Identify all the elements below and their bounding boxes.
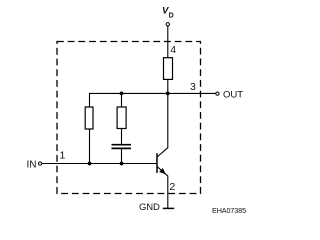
transistor Q1 collector diagonal [157, 148, 168, 157]
transistor Q1 base bar [156, 153, 158, 173]
wire R2 top to resistor [121, 93, 123, 107]
svg-text:IN: IN [27, 160, 37, 171]
node junction dot (R2 top) [120, 92, 124, 96]
ground symbol [163, 207, 174, 209]
node junction dot (C1 bottom on IN rail) [120, 162, 124, 166]
wire VD terminal to resistor 4 [167, 26, 169, 58]
node junction dot (R1 bottom on IN rail) [88, 162, 92, 166]
resistor R2 (series with capacitor) [117, 107, 126, 129]
wire resistor 4 bottom to output node [167, 79, 169, 93]
resistor (pull-up, pin 4) [164, 58, 173, 80]
transistor Q1 emitter diagonal [157, 167, 168, 177]
capacitor C1 [112, 145, 132, 149]
wire collector vertical to output node [167, 93, 169, 148]
svg-text:3: 3 [190, 81, 196, 93]
resistor R1 (left input resistor) [85, 107, 93, 129]
svg-text:GND: GND [139, 202, 160, 213]
svg-text:OUT: OUT [223, 89, 243, 100]
wire R2 bottom to capacitor [121, 129, 123, 145]
terminal VD [166, 23, 169, 26]
wire capacitor bottom to IN rail [121, 148, 123, 163]
wire R1 bottom to IN rail [89, 129, 91, 164]
node junction dot (output node) [166, 92, 170, 96]
IC boundary (dashed box) [57, 42, 201, 194]
terminal IN [38, 162, 41, 165]
wire horizontal bus y=93 (RC top rail to OUT) [90, 92, 216, 94]
svg-text:1: 1 [60, 149, 66, 161]
svg-text:EHA07385: EHA07385 [212, 206, 246, 215]
wire emitter to ground [167, 176, 169, 209]
svg-text:2: 2 [169, 181, 175, 193]
wire IN rail (terminal to transistor base) [42, 163, 157, 165]
label VD [162, 6, 174, 20]
transistor Q1 emitter arrowhead [159, 168, 166, 174]
wire left branch vertical (R1) [89, 93, 91, 107]
terminal OUT [216, 92, 219, 95]
svg-text:D: D [169, 13, 174, 20]
svg-text:4: 4 [170, 44, 176, 56]
